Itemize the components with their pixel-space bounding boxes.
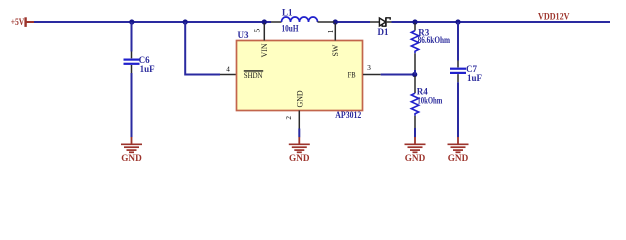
svg-text:GND: GND [405, 153, 426, 163]
svg-text:AP3012: AP3012 [335, 110, 361, 120]
ground (under C7) [448, 137, 469, 163]
svg-text:5: 5 [253, 29, 261, 33]
pin 2 stub (GND) [298, 111, 300, 129]
svg-text:GND: GND [289, 153, 310, 163]
node: R3 tap [412, 19, 417, 24]
wire top rail right: D1 to end [392, 21, 611, 23]
svg-text:GND: GND [121, 153, 142, 163]
svg-text:GND: GND [295, 90, 304, 107]
svg-text:1uF: 1uF [140, 64, 156, 74]
svg-text:SW: SW [331, 44, 340, 56]
inductor L1 [271, 17, 334, 22]
svg-text:L1: L1 [282, 7, 293, 17]
resistor R4 [411, 76, 418, 137]
svg-text:86.6kOhm: 86.6kOhm [418, 35, 451, 45]
power port +5V [11, 17, 34, 27]
pin 1 stub (SW) [334, 23, 336, 41]
diode D1 (schottky) [370, 17, 392, 26]
wire: rail down to SHDN then right [185, 22, 220, 75]
svg-text:4: 4 [226, 66, 230, 74]
capacitor C7 [450, 61, 466, 83]
ground (under R4) [405, 137, 426, 163]
ground (under C6) [121, 137, 142, 163]
svg-text:SHDN: SHDN [244, 71, 263, 80]
pin 5 stub (VIN) [263, 23, 265, 41]
capacitor C6 [124, 52, 140, 74]
resistor R3 [411, 23, 418, 75]
node: SW pin1 tap [333, 19, 338, 24]
node: C7 tap [455, 19, 460, 24]
svg-text:D1: D1 [378, 27, 389, 37]
pin 3 stub (FB) [363, 74, 381, 76]
svg-text:FB: FB [348, 71, 356, 80]
pin 4 SHDN stub [220, 74, 237, 76]
wire: C7 to ground [457, 82, 459, 137]
node: FB junction [412, 72, 417, 77]
wire: FB to junction [381, 74, 415, 76]
svg-text:VDD12V: VDD12V [538, 12, 570, 22]
wire top rail left: port to L1 [34, 21, 271, 23]
wire: rail down to C7 [457, 22, 459, 61]
wire top rail mid: L1 to D1 [335, 21, 370, 23]
svg-text:+5V: +5V [11, 17, 25, 27]
svg-text:10kOhm: 10kOhm [417, 96, 442, 106]
svg-text:GND: GND [448, 153, 469, 163]
svg-text:1: 1 [327, 29, 335, 33]
svg-text:10uH: 10uH [282, 24, 299, 34]
svg-text:2: 2 [285, 116, 293, 120]
svg-text:3: 3 [367, 64, 371, 72]
node: C6 tap [129, 19, 134, 24]
node: SHDN tap [183, 19, 188, 24]
wire: pin2 to ground [298, 129, 300, 138]
IC U3 body [237, 41, 363, 111]
wire: rail down to C6 [131, 22, 133, 52]
svg-text:1uF: 1uF [467, 73, 483, 83]
wire: C6 to ground [131, 73, 133, 137]
svg-text:U3: U3 [238, 30, 249, 40]
ground (under IC pin2) [289, 137, 310, 163]
svg-text:VIN: VIN [260, 43, 269, 57]
pin name SHDN (with overline) [244, 71, 263, 80]
node: VIN pin5 tap [262, 19, 267, 24]
